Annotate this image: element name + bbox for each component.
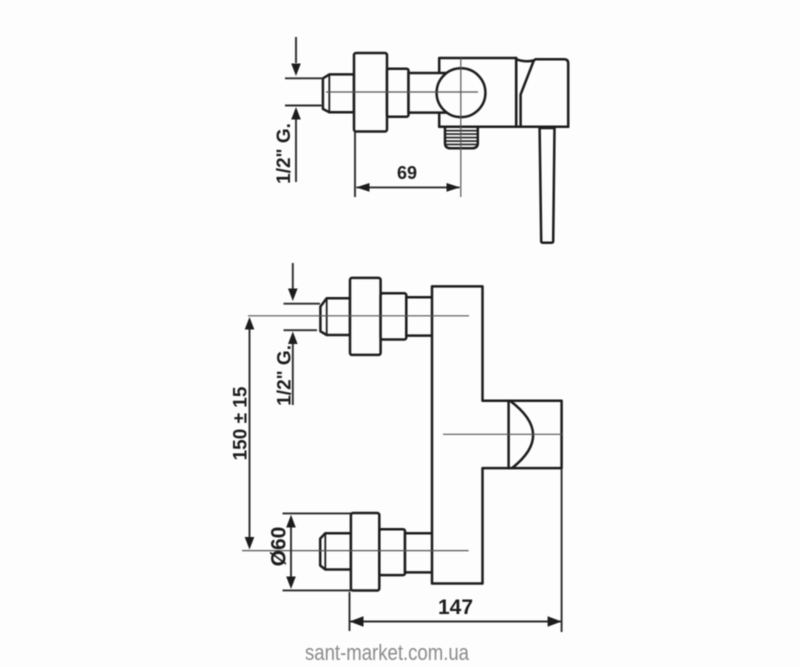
svg-text:1/2" G.: 1/2" G. <box>275 345 296 406</box>
svg-text:1/2" G.: 1/2" G. <box>274 123 295 184</box>
svg-text:Ø60: Ø60 <box>268 527 291 567</box>
svg-text:sant-market.com.ua: sant-market.com.ua <box>305 640 470 665</box>
svg-text:150 ± 15: 150 ± 15 <box>231 386 252 460</box>
svg-text:69: 69 <box>397 163 417 183</box>
svg-text:147: 147 <box>438 596 473 619</box>
